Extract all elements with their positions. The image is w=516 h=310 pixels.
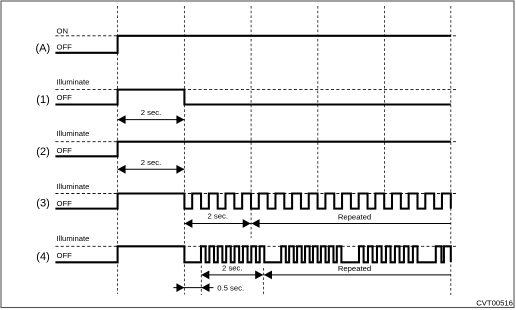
svg-text:Repeated: Repeated: [338, 264, 371, 273]
dashed tick at 2s boundary (x=263.6): [263, 268, 265, 295]
svg-text:0.5 sec.: 0.5 sec.: [217, 283, 244, 292]
svg-text:2 sec.: 2 sec.: [141, 158, 162, 167]
svg-text:Repeated: Repeated: [338, 212, 371, 221]
row (A) ON dashed level line: [55, 35, 457, 37]
svg-text:OFF: OFF: [57, 251, 73, 260]
svg-text:Illuminate: Illuminate: [57, 234, 90, 243]
arrow 0.5 sec row 4: [173, 283, 213, 292]
signal (2) waveform: [55, 142, 450, 157]
gridline t=10 sec: [450, 6, 452, 295]
arrow Repeated row 4: [264, 271, 451, 280]
row (4) Illuminate dashed level line: [55, 245, 457, 247]
gridline t=2 sec: [183, 6, 185, 295]
svg-text:(1): (1): [36, 94, 49, 106]
svg-text:OFF: OFF: [57, 42, 73, 51]
row (3) Illuminate dashed level line: [55, 193, 457, 195]
svg-text:Illuminate: Illuminate: [57, 129, 90, 138]
svg-text:2 sec.: 2 sec.: [207, 212, 228, 221]
svg-text:(2): (2): [36, 146, 49, 158]
signal (A) waveform: [55, 36, 450, 53]
arrow 2 sec row 1: [118, 115, 185, 124]
svg-text:(A): (A): [36, 42, 51, 54]
svg-text:OFF: OFF: [57, 199, 73, 208]
svg-text:(3): (3): [36, 197, 49, 209]
dashed tick at 0.5s boundary (x=201.5): [200, 266, 202, 296]
svg-text:2 sec.: 2 sec.: [222, 264, 243, 273]
arrow 2 sec row 2: [118, 165, 185, 174]
svg-text:OFF: OFF: [57, 146, 73, 155]
signal (3) waveform with 0.25s blink train: [55, 194, 450, 209]
arrow 2 sec row 4: [201, 271, 263, 280]
gridline t=4 sec: [250, 6, 252, 238]
svg-text:ON: ON: [57, 26, 69, 35]
gridline t=6 sec: [317, 6, 319, 192]
svg-text:(4): (4): [36, 251, 49, 263]
svg-text:Illuminate: Illuminate: [57, 78, 90, 87]
gridline t=0 sec: [117, 6, 119, 294]
row (1) Illuminate dashed level line: [55, 89, 457, 91]
svg-text:CVT00516: CVT00516: [476, 299, 513, 308]
arrow Repeated row 3: [252, 219, 451, 228]
signal (1) waveform: [55, 90, 450, 105]
svg-text:Illuminate: Illuminate: [57, 182, 90, 191]
svg-text:OFF: OFF: [57, 93, 73, 102]
row (2) Illuminate dashed level line: [55, 141, 457, 143]
gridline t=8 sec: [384, 6, 386, 192]
arrow 2 sec row 3: [184, 219, 250, 228]
signal (4) waveform with 0.125s blink trains: [55, 246, 450, 262]
svg-text:2 sec.: 2 sec.: [141, 108, 162, 117]
